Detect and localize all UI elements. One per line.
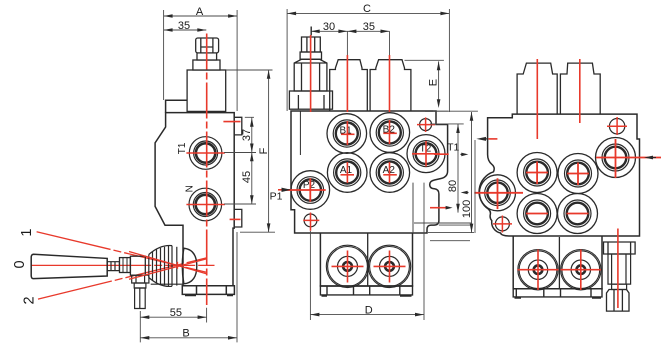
port N (left view) (189, 188, 222, 221)
port B1 (327, 114, 367, 154)
dimension D (310, 183, 424, 320)
fitting hex nut (607, 290, 630, 312)
svg-text:1: 1 (19, 229, 35, 237)
clevis nut (120, 258, 131, 273)
svg-text:F: F (258, 147, 270, 154)
section divider line (367, 233, 369, 286)
relief valve RV1 (left view) (187, 38, 226, 111)
red centerline relief (middle) (310, 35, 312, 112)
red tick A1 (341, 174, 355, 176)
bottom flange (middle) (320, 286, 412, 295)
port top-left (right view) (517, 153, 557, 193)
port right big (right view) (596, 138, 662, 179)
lower section (right view) (513, 236, 602, 289)
fitting block (604, 242, 636, 254)
dimension 55 (140, 308, 206, 343)
fitting neck (612, 284, 627, 289)
flow arrow right of T1 (461, 153, 464, 155)
red centerline T1 (186, 152, 225, 154)
svg-text:P1: P1 (270, 191, 283, 203)
svg-text:A: A (196, 6, 204, 18)
svg-text:D: D (365, 304, 373, 316)
spool cap 1 (middle view) (330, 60, 368, 112)
arrow right (right view) (644, 156, 653, 160)
section divider line (right view) (558, 237, 560, 289)
dimension 45 (224, 153, 256, 205)
dimension 30 (311, 31, 390, 59)
port T2 (407, 135, 445, 173)
svg-text:C: C (363, 3, 371, 15)
svg-text:2: 2 (22, 296, 38, 304)
svg-text:55: 55 (170, 307, 182, 319)
dimension E (405, 60, 448, 111)
red tick upper boss (223, 121, 240, 123)
clevis block (130, 256, 145, 275)
port B2 (370, 113, 410, 153)
svg-text:80: 80 (447, 180, 459, 192)
dimension 37 (224, 117, 256, 152)
port A2 (370, 153, 410, 193)
port bottom-2 (right view) (558, 194, 598, 234)
red tick lower boss (230, 218, 241, 220)
bottom section (middle view) (320, 233, 412, 286)
svg-text:N: N (184, 185, 195, 192)
dimension 80 (430, 124, 464, 213)
lower flange (right view) (513, 289, 602, 297)
P1 arrow (278, 189, 291, 191)
red cross small hole BL (303, 213, 319, 231)
cap 2 (right view) (560, 63, 600, 114)
spool bottom cover 2 (368, 245, 410, 287)
step block under clevis (132, 275, 149, 283)
arrow left top (right view) (488, 138, 497, 140)
boss lower right (234, 209, 242, 227)
small hole bottom left (304, 214, 317, 227)
dimension C (287, 12, 449, 14)
dimension F (226, 70, 275, 232)
red centerline spool1 (346, 55, 348, 183)
spool bottom cover 1 (326, 245, 368, 287)
port T1 (left view) (189, 137, 222, 170)
red cross P2 (285, 178, 326, 202)
boot dome (182, 248, 197, 284)
dimension 100 (428, 111, 478, 232)
body (left view) outline (155, 113, 234, 286)
red lever position line 1 (37, 232, 207, 272)
red pivot tick (176, 262, 178, 269)
small hole top-right (right view) (607, 117, 627, 135)
red centerline fitting (617, 229, 619, 309)
port A1 (327, 153, 367, 193)
svg-text:100: 100 (461, 200, 473, 218)
svg-text:B: B (182, 328, 189, 340)
svg-text:35: 35 (178, 20, 190, 32)
red lever position line 0 (31, 264, 214, 266)
red flow arrow at 208 (430, 207, 446, 209)
svg-text:35: 35 (363, 21, 375, 33)
red centerline spool2 (389, 55, 391, 183)
dimension 35 (middle) (347, 30, 356, 34)
lever shaft (107, 262, 119, 271)
dimension 35 (164, 29, 207, 31)
lever handle grip (31, 254, 107, 278)
top step block (166, 100, 188, 112)
spool cap 2 (middle view) (370, 60, 411, 112)
hidden edge lines bottom right (413, 183, 472, 233)
red convergence lines at pivot (129, 252, 206, 280)
red lever position line 2 (38, 258, 206, 299)
port top-mid (right view) (558, 154, 598, 194)
svg-text:30: 30 (323, 21, 335, 33)
svg-text:E: E (427, 79, 439, 86)
red centerlines caps (right view) (536, 59, 538, 139)
bottom circles (right view) 2 (561, 250, 602, 291)
red centerline vertical (left view) (206, 34, 208, 306)
small hole bottom-left (right view) (493, 216, 512, 233)
red cross T2 (412, 141, 449, 167)
extension lines between views (430, 140, 475, 241)
dimension A extension lines (164, 10, 238, 111)
relief counterbore line (299, 111, 301, 155)
bottom circles (right view) 1 (518, 250, 559, 291)
dimension B (140, 232, 237, 342)
port P2 (291, 171, 330, 210)
housing bottom ledge (151, 283, 183, 285)
svg-text:45: 45 (241, 171, 253, 183)
dimension C extension lines (287, 9, 449, 112)
bottom flange (182, 286, 234, 295)
port left (right view) (474, 175, 523, 211)
red centerline N (186, 204, 225, 206)
fitting stem (608, 254, 631, 284)
red tick B2 (383, 132, 397, 134)
body (middle view) outline (291, 111, 448, 233)
boot bellows (149, 245, 172, 286)
red tick B1 (341, 133, 355, 135)
pin rod (134, 283, 146, 288)
tick at relief centerline (dim 30 ref) (310, 27, 312, 36)
body (right view) outline (479, 114, 639, 236)
red tick A2 (383, 174, 397, 176)
svg-text:0: 0 (12, 260, 28, 268)
flow arrow at 192 (466, 192, 469, 194)
small hole top right (420, 119, 432, 131)
red cross small hole TR (417, 117, 435, 132)
port bottom-1 (right view) (517, 194, 557, 234)
dimension A (164, 15, 238, 17)
boss upper right (234, 117, 242, 135)
cap 1 (right view) (517, 63, 557, 114)
relief valve stack (middle view) (289, 37, 332, 109)
svg-text:37: 37 (241, 129, 253, 141)
